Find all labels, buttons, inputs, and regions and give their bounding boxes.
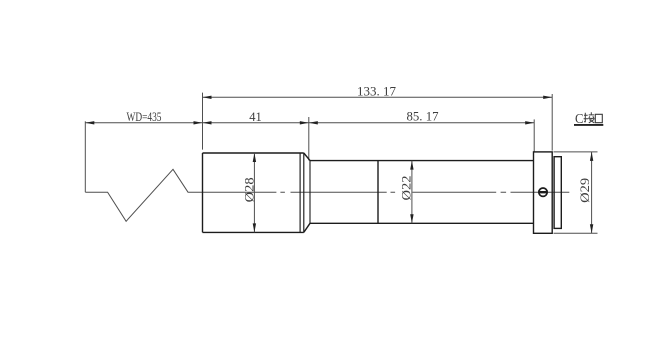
extension line at x=202.5 (front face) xyxy=(202,93,204,150)
C-mount thread ring xyxy=(554,157,561,229)
arrowhead 41 left xyxy=(203,121,212,124)
dimension φ22 vertical line xyxy=(411,161,413,224)
dimension line 85.17 xyxy=(309,122,534,124)
arrowhead φ22 bottom xyxy=(410,214,413,223)
arrowhead φ28 bottom xyxy=(253,223,256,232)
object-plane extension line (left vertical at WD start) xyxy=(84,121,86,192)
setscrew circle xyxy=(539,188,547,196)
arrowhead 85.17 right xyxy=(525,121,534,124)
front barrel chamfer top xyxy=(304,153,310,161)
svg-text:Ø28: Ø28 xyxy=(242,177,256,202)
svg-text:85. 17: 85. 17 xyxy=(407,110,439,124)
extension line at x=552.2 (133.17 right end) xyxy=(551,94,553,151)
arrowhead 85.17 left xyxy=(309,121,318,124)
φ29 extension line bottom xyxy=(554,232,598,234)
arrowhead 133.17 right xyxy=(543,96,552,99)
arrowhead WD left xyxy=(85,121,94,124)
rear barrel φ22 body xyxy=(310,161,534,224)
front barrel φ28 body xyxy=(203,153,304,232)
svg-text:133. 17: 133. 17 xyxy=(357,85,396,99)
arrowhead φ22 top xyxy=(410,161,413,170)
svg-text:WD=435: WD=435 xyxy=(127,110,162,124)
underline for C接口 xyxy=(574,124,603,126)
arrowhead WD right xyxy=(194,121,203,124)
arrowhead φ29 top xyxy=(590,152,593,161)
dimension φ28 vertical line xyxy=(253,153,255,232)
arrowhead φ28 top xyxy=(253,153,256,162)
setscrew slot xyxy=(539,191,547,193)
cone-cylinder junction edge xyxy=(309,161,311,224)
dimension line 133.17 xyxy=(203,96,553,98)
C-mount flange body xyxy=(534,152,553,233)
front barrel chamfer bottom xyxy=(304,223,310,232)
hanzi 口 strokes xyxy=(595,114,602,122)
arrowhead 133.17 left xyxy=(203,96,212,99)
svg-text:41: 41 xyxy=(249,110,262,124)
φ29 extension line top xyxy=(554,151,598,153)
arrowhead φ29 bottom xyxy=(590,224,593,233)
hanzi 接 strokes xyxy=(584,112,595,123)
break line (zigzag object-plane symbol) xyxy=(85,169,202,221)
dimension line 41 xyxy=(203,122,309,124)
svg-text:Ø29: Ø29 xyxy=(578,178,592,203)
extension line at x=308.5 (41/85.17 junction) xyxy=(308,117,310,160)
dimension φ29 vertical line xyxy=(591,152,593,233)
dimension line WD=435 xyxy=(85,122,202,124)
rear barrel joint line xyxy=(377,161,379,224)
front barrel right face double edge xyxy=(300,153,304,232)
arrowhead 41 right xyxy=(300,121,309,124)
extension line at x=534.2 (85.17 right end) xyxy=(533,119,535,151)
svg-text:Ø22: Ø22 xyxy=(400,176,414,201)
centerline (optical axis, dash-dot) xyxy=(203,191,570,193)
